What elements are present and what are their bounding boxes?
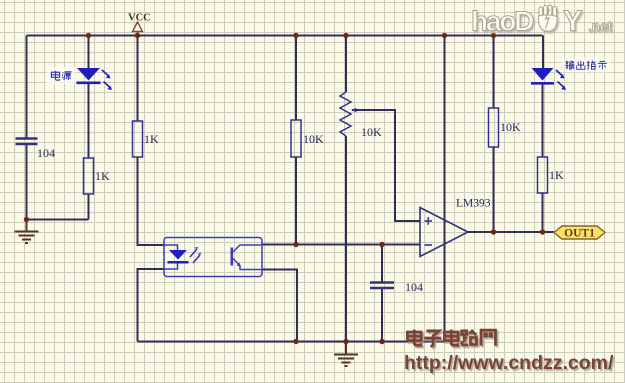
svg-text:104: 104 bbox=[37, 146, 55, 160]
wire: LED D1 anode column bbox=[88, 36, 90, 69]
LED D2 output indicator bbox=[531, 68, 566, 90]
capacitor C2 104 bbox=[370, 283, 394, 289]
op-amp plus input symbol bbox=[425, 217, 433, 225]
power port VCC symbol bbox=[133, 22, 143, 36]
wire: left column C1 top bbox=[26, 36, 28, 139]
wire: R6 bottom to output row bbox=[493, 147, 495, 232]
ground symbol left bbox=[15, 220, 39, 244]
junction dots output row bbox=[491, 229, 545, 234]
wire: potentiometer column top bbox=[345, 36, 347, 93]
svg-text:10K: 10K bbox=[303, 132, 324, 146]
potentiometer RP 10K zigzag bbox=[340, 92, 351, 136]
wire: R6 column top bbox=[493, 36, 495, 109]
svg-text:1K: 1K bbox=[95, 169, 110, 183]
optocoupler light arrows bbox=[190, 247, 202, 263]
wire: top VCC rail bbox=[27, 35, 544, 37]
junction dots inverting row bbox=[293, 242, 384, 247]
wire: op-amp supply column bbox=[444, 36, 446, 342]
svg-text:10K: 10K bbox=[500, 120, 521, 134]
resistor R7 1K bbox=[538, 157, 548, 193]
wire: bottom row R1 to node A bbox=[27, 219, 89, 221]
wire: op-amp output row bbox=[468, 231, 554, 233]
wire: inverting input row bbox=[262, 244, 420, 246]
resistor R3 10K bbox=[291, 120, 301, 157]
wire: R1 bottom bbox=[88, 194, 90, 220]
wire: opto cathode to left column bbox=[138, 269, 165, 342]
potentiometer wiper arrow bbox=[351, 108, 357, 113]
optocoupler LED bbox=[164, 245, 189, 269]
svg-text:Y: Y bbox=[563, 6, 582, 38]
wire: R3 bottom to inverting row bbox=[295, 157, 297, 245]
wire: VCC column to R2 bbox=[137, 36, 139, 122]
LED D1 power indicator bbox=[77, 68, 113, 90]
junction dots bottom rail bbox=[293, 339, 384, 344]
op-amp U1 LM393 bbox=[420, 208, 468, 257]
optocoupler phototransistor bbox=[231, 245, 263, 270]
logo haoDIY.net bbox=[471, 5, 613, 38]
wire: R2 bottom to opto anode bbox=[138, 157, 165, 245]
svg-text:10K: 10K bbox=[361, 125, 382, 139]
svg-text:OUT1: OUT1 bbox=[564, 228, 595, 240]
wire: opto emitter to bottom rail bbox=[262, 270, 297, 342]
wire: C2 top bbox=[381, 245, 383, 283]
wire: bottom ground rail bbox=[138, 341, 445, 343]
resistor R1 1K bbox=[84, 158, 94, 194]
wire: potentiometer column bottom to ground rail bbox=[345, 136, 347, 342]
svg-text:LM393: LM393 bbox=[456, 198, 491, 210]
svg-text:.net: .net bbox=[588, 19, 613, 34]
wire: pot wiper to non-inverting input bbox=[352, 110, 420, 221]
op-amp minus input symbol bbox=[425, 244, 433, 246]
wire: R7 bottom to output row bbox=[542, 193, 544, 232]
wire: C1 bottom to ground node bbox=[26, 144, 28, 220]
watermark text dianzidianluwang bbox=[407, 330, 495, 346]
svg-text:1K: 1K bbox=[144, 132, 159, 146]
optocoupler U2 box bbox=[164, 238, 262, 277]
junction dots on top rail bbox=[86, 33, 496, 38]
label power LED backing bbox=[47, 67, 76, 84]
svg-text:104: 104 bbox=[405, 280, 423, 294]
svg-text:haoD: haoD bbox=[471, 6, 534, 37]
wire: top rail corner to LED D2 bbox=[542, 36, 544, 69]
label output indicator (shuchuzhishi) bbox=[565, 61, 607, 70]
wire: C2 bottom bbox=[381, 288, 383, 342]
capacitor C1 104 bbox=[16, 139, 38, 145]
resistor R6 10K bbox=[489, 108, 499, 147]
resistor R2 1K bbox=[133, 121, 143, 157]
wire: R3 column top bbox=[295, 36, 297, 121]
wire: LED D1 cathode to R1 bbox=[88, 84, 90, 159]
net label OUT1 bbox=[554, 226, 605, 240]
svg-text:VCC: VCC bbox=[128, 13, 151, 24]
svg-text:http://www.cndzz.com/: http://www.cndzz.com/ bbox=[404, 352, 614, 374]
label output indicator backing bbox=[562, 58, 611, 73]
label power LED (dianyuan) bbox=[51, 71, 71, 80]
junction dot node A bbox=[24, 217, 29, 222]
wire: LED D2 cathode to R7 bbox=[542, 84, 544, 157]
svg-text:1K: 1K bbox=[549, 168, 564, 182]
ground symbol middle bbox=[334, 342, 358, 367]
